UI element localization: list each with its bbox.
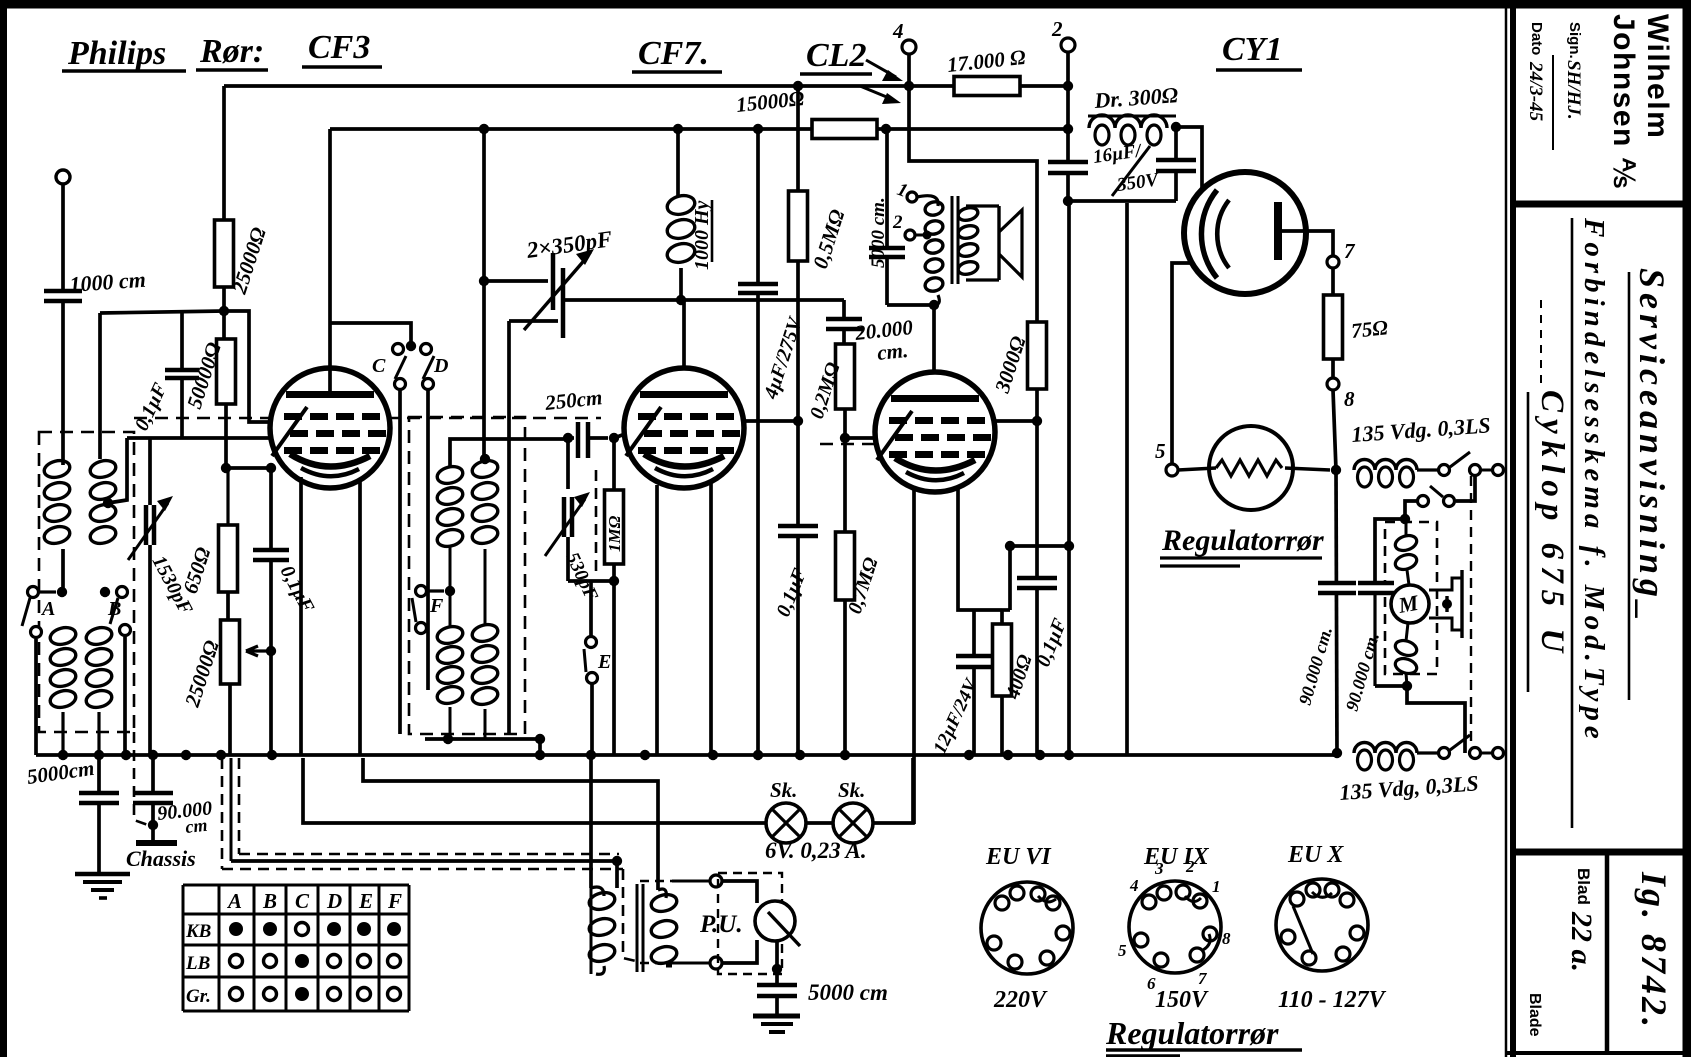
osc coil lower right [470,622,499,644]
svg-text:C: C [295,889,310,913]
capacitor 5000cm speaker [885,129,889,246]
coil 1000Hy [676,129,680,196]
resistor 0.2M [842,329,846,344]
svg-text:5: 5 [1155,439,1166,463]
svg-text:P.U.: P.U. [699,911,743,938]
resistor 0.5M [796,86,800,191]
wire switchB drop [123,637,127,755]
svg-text:1000 Hy: 1000 Hy [691,200,713,270]
antenna coil A lower [48,625,77,647]
mains transformer left coil [591,887,604,896]
svg-text:Wilhelm: Wilhelm [1641,14,1674,139]
node CL2 screen junction [1032,416,1042,426]
wire CF3 anode branch to switch CD [330,323,411,346]
wire motor to bottom switch [1407,686,1465,753]
capacitor 0.1uF CL2 [1035,421,1039,576]
svg-text:Regulatorrør: Regulatorrør [1161,524,1324,557]
wire terminal4 to 3000 [909,86,1037,322]
wire L 509 [509,319,558,323]
pin 8 [1327,378,1339,390]
resistor 3000 [1028,322,1047,389]
wire CF7 anode [682,300,686,368]
osc coil box dashed [409,417,525,734]
variable capacitor 2x350pF front [551,253,556,310]
capacitor 16uF input [1066,129,1070,160]
svg-text:Serviceanvisning_: Serviceanvisning_ [1632,268,1672,625]
lamp Sk 2 [806,821,833,825]
tube CL2 [875,372,995,492]
motor bracket with cap 90000cm [1375,519,1405,583]
potentiometer 25000 [226,592,230,620]
svg-text:1: 1 [1212,877,1221,896]
CF3 bottom leads [299,477,303,755]
svg-text:Rør:: Rør: [199,33,264,70]
resistor 17000 [954,77,1020,96]
wire cathode to return [1002,608,1010,612]
node 1M bottom [609,576,619,586]
svg-text:220V: 220V [993,987,1048,1013]
tube CY1 rectifier [1184,172,1306,294]
lamp Sk 1 [766,803,806,843]
capacitor 5000cm PU [757,983,797,988]
CY1 anode bar [1274,202,1282,260]
svg-text:Chassis: Chassis [126,846,196,871]
svg-text:E: E [597,651,611,673]
svg-text:Philips: Philips [67,35,166,72]
PU dashed box [640,880,712,882]
svg-text:Cyklop 675 U: Cyklop 675 U [1534,390,1570,659]
antenna terminal [56,170,70,184]
wire AVC left branch [100,311,224,313]
mains switch top [1439,465,1450,476]
coil B tap wire to grid line [103,498,113,508]
terminal 2 [1061,38,1075,52]
osc coil upper left [435,464,464,486]
svg-text:22 a.: 22 a. [1565,911,1598,972]
svg-text:SH/HJ.: SH/HJ. [1563,60,1584,120]
wire lamp return [873,758,913,823]
ground symbol PU [753,1014,800,1019]
switch F [416,586,427,597]
title block bottom cell divider [1605,852,1610,1053]
wire switch C drop [398,390,402,734]
date field [1525,22,1546,122]
wire CF3 line2 to tuning cap [482,129,486,281]
company name Wilhelm Johnsen A/S [1607,14,1674,189]
svg-text:5: 5 [1118,941,1127,960]
capacitor 90000cm chassis [151,755,155,791]
capacitor 5000cm ant [97,755,101,791]
antenna coil box dashed [39,432,134,732]
svg-text:A: A [226,889,242,913]
coupling cap 20000cm [842,300,846,317]
resistor 0.7M [843,438,847,532]
motor field coil bottom [1393,638,1418,658]
resistor 15000 [812,120,877,139]
title block left border [1505,4,1508,1057]
transformer primary leads [589,758,593,888]
junction dots rails [793,81,803,91]
speaker coil and horn [957,206,979,222]
pickup PU [722,881,757,903]
wire switch E drop [590,684,594,755]
switch A [28,587,39,598]
capacitor 1000cm [44,289,82,294]
svg-text:2: 2 [1051,17,1063,41]
node AVC junction [219,306,229,316]
svg-text:Blad: Blad [1574,868,1593,905]
svg-text:2: 2 [892,212,903,233]
pin 7 [1327,256,1339,268]
title Cyklop 675U [1534,390,1570,659]
svg-text:Johnsen ⅍: Johnsen ⅍ [1607,14,1640,189]
coil 135Vdg bottom [1354,743,1417,754]
resistor 75 [1331,268,1335,295]
capacitor 0.1uF AVC [180,313,184,368]
title block divider bottom [1513,849,1687,856]
switch B [100,587,110,597]
svg-text:5000 cm: 5000 cm [808,980,888,1005]
node cathode line junctions [221,463,231,473]
svg-text:1MΩ: 1MΩ [605,515,624,552]
switch C/D [406,341,416,351]
wire 250cm to trimmer530 [566,438,570,489]
long dashed line band switch [134,417,601,420]
wire lamp feed [303,758,766,823]
wire pin8 to regulator node [1333,390,1336,470]
chassis connection [136,840,177,846]
wire osc UR top [480,454,490,464]
mains transformer core [636,884,639,972]
osc coil upper right [470,458,499,480]
wire PU to cap [775,941,779,983]
motor assembly dashed box [1385,522,1437,674]
svg-text:Sign.: Sign. [1566,22,1583,59]
wire choke to heater [1176,127,1202,212]
svg-text:D: D [433,355,448,377]
svg-text:D: D [326,889,342,913]
border frame [0,0,1691,9]
shield solid line [230,758,233,861]
wire B+ line1 y85 [224,84,1068,88]
ground symbol [75,872,130,877]
pin 5 [1166,464,1178,476]
wire switchA drop [34,639,38,755]
svg-text:B: B [107,598,121,620]
sign field [1563,22,1584,120]
svg-text:EU VI: EU VI [985,844,1052,870]
svg-text:LB: LB [185,953,210,974]
PU terminals [710,875,722,887]
antenna coil B upper [88,458,117,480]
svg-text:KB: KB [185,921,211,942]
pot wiper arrow [246,646,272,656]
capacitor 90000cm left [1318,583,1356,593]
table cells [229,922,243,936]
motor brushes [1429,578,1462,590]
node CL2 grid [840,433,850,443]
wire screen branch [224,311,271,422]
dashed chassis link [134,732,148,825]
blad number [1565,868,1598,972]
svg-text:Blade: Blade [1526,993,1543,1037]
svg-text:EU IX: EU IX [1143,844,1210,870]
motor field coil top [1393,533,1418,553]
regulator tube [1209,426,1293,510]
tube CF3 [270,368,390,488]
svg-text:6V. 0,23 A.: 6V. 0,23 A. [765,838,867,863]
title Serviceanvisning [1632,268,1672,625]
wire line2 y128 right part [877,127,1068,131]
tube CF7 [624,368,744,488]
capacitor 12uF/24V [956,654,992,659]
shield dashed lines [221,758,224,869]
wire switch D drop [426,390,430,690]
osc coil lower left [435,624,464,646]
svg-text:1000 cm: 1000 cm [69,267,147,297]
svg-text:4: 4 [1129,876,1139,895]
resistor 1M boxed [612,438,616,490]
grid wire y438 [127,436,270,440]
terminal 4 [902,40,916,54]
svg-text:B: B [262,889,277,913]
antenna coil B lower [84,625,113,647]
svg-text:C: C [372,355,386,377]
svg-text:7: 7 [1344,239,1356,263]
svg-text:Regulatorrør: Regulatorrør [1105,1015,1279,1051]
wire return line 1069 [1067,201,1071,546]
drawing number Ig 8742 [1634,871,1674,1030]
wire coil B top to AVC [98,313,102,459]
CF7 bottom leads [655,485,659,755]
node osc anode junction [676,295,686,305]
svg-text:Gr.: Gr. [186,986,211,1007]
svg-text:CY1: CY1 [1222,31,1282,68]
junction dots bottom bus [58,750,68,760]
svg-text:E: E [358,889,373,913]
wire heater line y781 [363,758,658,890]
wire bottom bus [36,753,1337,757]
switch link dashed [1470,476,1472,746]
wire terminal2 drop [1066,52,1070,129]
wire CF3 anode to line2 [328,129,332,391]
resistor 650 [219,525,238,592]
capacitor 0.1uF CF7 anode [796,421,800,524]
motor bottom junction [1402,681,1412,691]
svg-text:150V: 150V [1155,987,1209,1013]
svg-text:Ig. 8742.: Ig. 8742. [1634,871,1674,1030]
title Forbindelsesskema [1578,217,1610,744]
motor top junction [1400,514,1410,524]
wire filter common [1068,199,1176,203]
svg-text:75Ω: 75Ω [1350,315,1389,343]
svg-text:cm.: cm. [876,338,909,365]
wire main drop right [1336,470,1337,755]
CL2 pointer arrows [866,60,896,77]
svg-text:8: 8 [1222,929,1231,948]
node regulator output [1331,465,1341,475]
title block divider top [1513,201,1687,208]
motor M [1391,585,1429,623]
wire tuning cap to osc [563,298,681,302]
motor switch [1456,476,1475,501]
svg-text:5000 cm.: 5000 cm. [868,197,889,268]
trimmer 530pF [562,497,567,537]
switch E [589,581,593,636]
capacitor 4uF/275V [756,129,760,282]
band switch table [183,885,409,1011]
svg-text:cm: cm [184,815,208,837]
capacitor 0.1uF cathode [269,468,273,548]
wire CL2 anode [932,305,936,372]
osc box bottom wires [425,737,540,741]
CL2 cathode network [958,486,1002,610]
svg-text:Sk.: Sk. [770,778,797,802]
svg-text:4: 4 [892,19,904,43]
wire coilA mid [61,549,65,592]
blade label [1526,993,1543,1037]
mains transformer right coil [658,889,666,898]
antenna coil A upper [42,458,71,480]
wire return line left of CY1 [1125,203,1129,755]
svg-text:Dato: Dato [1528,22,1545,55]
svg-text:EU X: EU X [1287,842,1344,868]
svg-text:F: F [387,889,402,913]
wire antenna lead [61,184,65,289]
resistor 25000 top [222,86,226,220]
svg-text:8: 8 [1344,387,1355,411]
capacitor 250cm [563,433,573,443]
capacitor 16uF output [1174,127,1178,158]
title block bottom border [1506,1051,1691,1055]
svg-text:CL2: CL2 [806,37,866,74]
trimmer 1530pF [148,438,152,505]
svg-text:Sk.: Sk. [838,778,865,802]
CY1 filament to pin5 wire [1172,263,1190,470]
wire osc UL top [450,439,566,467]
wire y300 to CL2 grid cap [681,298,844,302]
svg-text:Forbindelsesskema f. Mod.Type: Forbindelsesskema f. Mod.Type [1578,217,1610,744]
wire line2 y128 left part [330,127,812,131]
resistor 50000 [222,311,226,339]
svg-text:A: A [40,598,55,620]
wire CY1 anode to pin7 [1282,231,1333,255]
svg-text:2: 2 [1185,857,1195,876]
speaker transformer core [951,196,954,284]
svg-text:F: F [429,595,444,617]
svg-text:CF7.: CF7. [638,35,709,72]
resistor 400 [1000,610,1004,624]
svg-text:CF3: CF3 [308,29,370,66]
svg-text:24/3-45: 24/3-45 [1525,61,1546,122]
svg-text:3: 3 [1154,859,1164,878]
mains switch bottom [1439,748,1450,759]
svg-text:110 - 127V: 110 - 127V [1278,987,1387,1013]
node CF7 anode junction [793,416,803,426]
speaker transformer primary coil [917,196,938,206]
CL2 heater lead [912,488,916,824]
